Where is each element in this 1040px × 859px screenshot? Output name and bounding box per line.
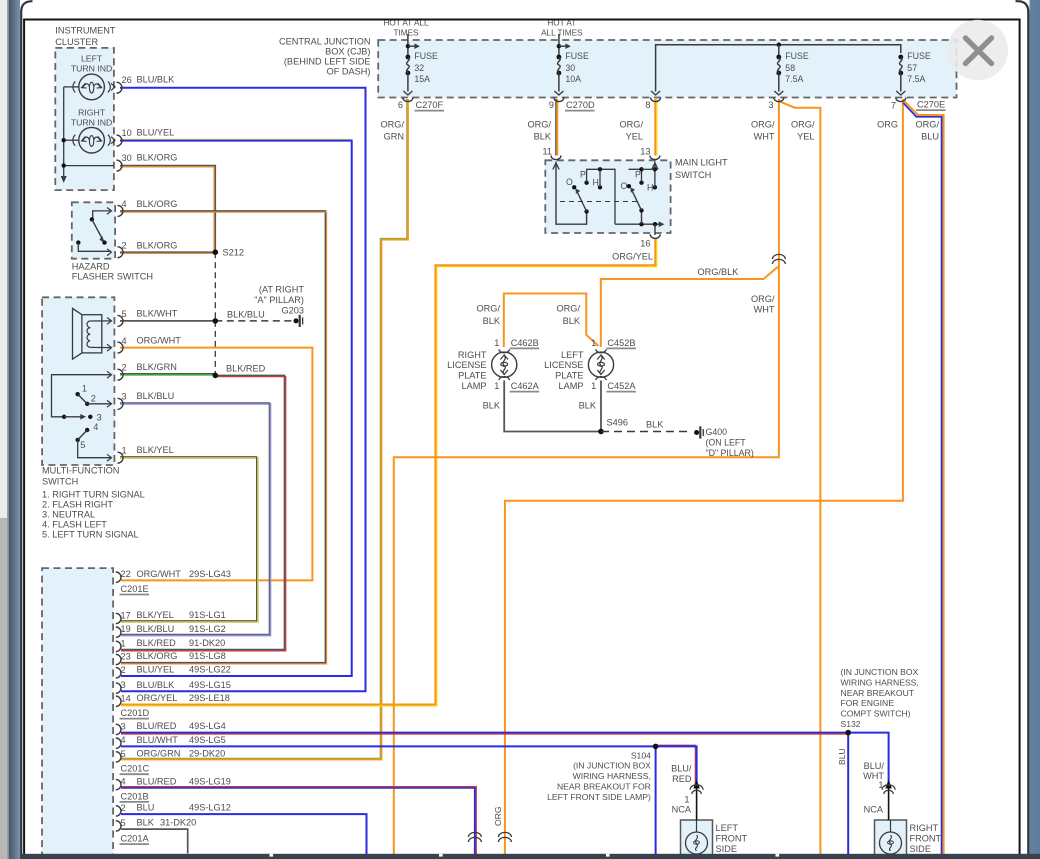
svg-text:29S-LG43: 29S-LG43 [189, 569, 231, 579]
svg-text:31-DK20: 31-DK20 [160, 818, 196, 828]
svg-text:LEFT: LEFT [561, 350, 584, 360]
svg-text:4: 4 [121, 777, 126, 787]
wire BLK C201A pin5 to bottom bus [121, 829, 188, 853]
MFS pin 5 connector [118, 315, 124, 326]
svg-text:BLK: BLK [483, 316, 501, 326]
splice S496 [598, 429, 604, 435]
svg-text:1: 1 [494, 338, 499, 348]
pin 26 connector [117, 82, 122, 93]
svg-text:FRONT: FRONT [910, 834, 942, 844]
svg-text:BLK/YEL: BLK/YEL [137, 445, 174, 455]
svg-text:ALL TIMES: ALL TIMES [541, 28, 583, 37]
hazard pin 2 connector [118, 247, 124, 258]
svg-text:4: 4 [122, 336, 127, 346]
svg-text:5: 5 [121, 749, 126, 759]
C201 pin 19 BLK/BLU [116, 627, 121, 637]
svg-text:29S-LE18: 29S-LE18 [189, 693, 230, 703]
inline connector on ORG/WHT wire [772, 254, 785, 259]
viewer scrollbar thumb (left) [0, 518, 7, 859]
wire BLK/YEL MFS pin1 to C201E pin17 [120, 458, 258, 622]
wire BLK/RED junction to C201E pin1 [121, 375, 285, 649]
svg-text:YEL: YEL [626, 132, 643, 142]
left front lamp NCA connector [696, 784, 698, 820]
svg-text:BLU/YEL: BLU/YEL [137, 665, 175, 675]
MFS pin 2 connector [118, 369, 124, 380]
wire ORG/BLK branch to right license lamp [504, 294, 599, 348]
svg-text:ORG/: ORG/ [791, 120, 815, 130]
ground G203 [294, 318, 299, 323]
svg-text:NCA: NCA [672, 805, 692, 815]
svg-text:ORG/BLK: ORG/BLK [698, 267, 740, 277]
C201 pin 23 BLK/ORG [116, 654, 121, 664]
dashed wire BLK/BLU junction to G203 [215, 320, 293, 322]
MLS interior right switch [615, 223, 659, 225]
wire ORG/GRN fuse32 pin6 to C201C pin5 [121, 99, 407, 758]
svg-text:CLUSTER: CLUSTER [55, 37, 98, 47]
hazard pin 4 connector [118, 205, 124, 216]
connector C201 box [42, 568, 113, 855]
svg-text:3: 3 [121, 680, 126, 690]
svg-text:TURN IND: TURN IND [71, 118, 113, 128]
close button [947, 20, 1008, 81]
svg-text:C201A: C201A [121, 834, 150, 844]
svg-text:"D" PILLAR): "D" PILLAR) [706, 448, 754, 458]
viewer bottom bar [20, 854, 1040, 859]
svg-text:TURN IND: TURN IND [71, 64, 113, 74]
wire BLU/RED S104 to left front side lamp [656, 745, 696, 785]
svg-text:19: 19 [121, 624, 131, 634]
hazard switch interior [93, 211, 111, 220]
svg-text:FUSE: FUSE [414, 51, 438, 61]
lamp LEFT FRONT SIDE LAMP [681, 820, 713, 859]
svg-text:26: 26 [122, 75, 132, 85]
wire ORG/YEL main light switch pin16 to C201D pin14 [121, 238, 657, 707]
svg-text:C462A: C462A [511, 381, 540, 391]
svg-text:BLK/GRN: BLK/GRN [137, 362, 177, 372]
svg-text:FUSE: FUSE [907, 51, 931, 61]
svg-text:49S-LG5: 49S-LG5 [189, 735, 226, 745]
svg-text:NEAR BREAKOUT FOR: NEAR BREAKOUT FOR [557, 781, 651, 791]
svg-text:ORG/WHT: ORG/WHT [137, 569, 182, 579]
svg-text:7.5A: 7.5A [907, 74, 925, 84]
viewer right background band [1030, 0, 1040, 859]
MLS mechanical linkage [560, 201, 641, 203]
viewer divider line [7, 0, 9, 859]
svg-text:49S-LG15: 49S-LG15 [189, 680, 231, 690]
svg-text:BLK: BLK [534, 132, 552, 142]
svg-text:S212: S212 [223, 248, 244, 258]
svg-text:WHT: WHT [754, 132, 775, 142]
wire ORG CJB pin7 to bottom break [505, 99, 903, 859]
C201 pin 22 ORG/WHT [116, 572, 121, 582]
svg-text:49S-LG4: 49S-LG4 [189, 721, 226, 731]
C201 pin 3 BLU/BLK [116, 683, 121, 693]
lamp LEFT TURN IND [79, 74, 105, 100]
lamp LEFT LICENSE PLATE LAMP [588, 352, 613, 377]
lamp RIGHT FRONT SIDE LAMP [875, 820, 907, 859]
svg-text:1: 1 [494, 381, 499, 391]
svg-text:BLK: BLK [579, 401, 597, 411]
svg-text:ORG: ORG [493, 806, 503, 826]
node on cluster ground at right lamp [62, 138, 66, 142]
svg-text:BLK/BLU: BLK/BLU [137, 624, 175, 634]
svg-text:WIRING HARNESS,: WIRING HARNESS, [573, 771, 651, 781]
CJB pin 7 connector C270E [896, 98, 906, 102]
svg-text:11: 11 [542, 147, 552, 157]
svg-text:1: 1 [591, 338, 596, 348]
svg-text:C270E: C270E [917, 100, 945, 110]
svg-text:P: P [580, 170, 586, 180]
svg-text:3. NEUTRAL: 3. NEUTRAL [42, 510, 95, 520]
svg-text:(IN JUNCTION BOX: (IN JUNCTION BOX [841, 667, 919, 677]
svg-text:C270F: C270F [416, 100, 444, 110]
wire BLU/WHT S132 to right front side lamp [848, 733, 888, 786]
svg-text:7.5A: 7.5A [785, 74, 803, 84]
svg-text:30: 30 [565, 63, 575, 73]
svg-text:91S-LG1: 91S-LG1 [189, 610, 226, 620]
svg-text:BLK/BLU: BLK/BLU [227, 309, 265, 319]
svg-text:BLU/: BLU/ [864, 761, 885, 771]
svg-text:BLK/ORG: BLK/ORG [137, 241, 178, 251]
svg-text:4. FLASH LEFT: 4. FLASH LEFT [42, 520, 107, 530]
wire BLU S104 down to bottom [655, 746, 657, 859]
wire BLU/RED C201B pin4 to bottom break [121, 788, 475, 859]
svg-text:3: 3 [121, 721, 126, 731]
svg-text:LEFT: LEFT [81, 54, 103, 64]
wire BLU S132 down to bottom [847, 733, 849, 859]
svg-text:1: 1 [122, 446, 127, 456]
svg-text:2: 2 [91, 394, 96, 404]
svg-text:SWITCH: SWITCH [42, 477, 78, 487]
diagram frame [23, 20, 25, 855]
svg-text:G400: G400 [706, 427, 728, 437]
svg-text:BLU: BLU [137, 803, 155, 813]
svg-text:FUSE: FUSE [785, 51, 809, 61]
svg-text:15A: 15A [414, 74, 430, 84]
MFS pin 4 connector [118, 342, 124, 353]
svg-text:1: 1 [878, 780, 883, 790]
fuse 58 7.5A [776, 55, 781, 60]
wire BLK/ORG hazard pin4 to C201E pin23 [120, 211, 325, 663]
svg-text:5: 5 [80, 440, 85, 450]
svg-text:17: 17 [121, 611, 131, 621]
svg-text:S496: S496 [607, 418, 628, 428]
wire ORG/BLU CJB pin7 to bottom right [903, 103, 941, 859]
C201 pin 1 BLK/RED [116, 641, 121, 651]
svg-text:57: 57 [907, 63, 917, 73]
wire BLK/BLU MFS pin3 to C201E pin19 [120, 404, 270, 636]
svg-text:BLK/YEL: BLK/YEL [137, 610, 174, 620]
C201 pin 4 BLU/WHT [116, 738, 121, 748]
svg-text:BLK/WHT: BLK/WHT [137, 309, 178, 319]
svg-text:C270D: C270D [566, 100, 595, 110]
svg-text:P: P [635, 170, 641, 180]
svg-text:ORG/: ORG/ [620, 120, 644, 130]
MLS pin 11 connector [551, 156, 561, 160]
svg-text:2: 2 [121, 803, 126, 813]
svg-text:1: 1 [684, 795, 689, 805]
splice S132 [845, 730, 851, 736]
svg-text:10: 10 [122, 128, 132, 138]
svg-text:ORG/: ORG/ [751, 294, 775, 304]
svg-text:WHT: WHT [754, 305, 775, 315]
svg-text:2: 2 [122, 241, 127, 251]
svg-text:BLK/ORG: BLK/ORG [137, 651, 178, 661]
MFS pin 1 connector [118, 452, 124, 463]
svg-text:ORG/YEL: ORG/YEL [137, 693, 178, 703]
wire ORG/BLK tap to license plate lamps [601, 266, 779, 347]
wire BLK/WHT MFS pin5 to junction [120, 320, 215, 322]
svg-text:BLU/RED: BLU/RED [137, 721, 177, 731]
svg-text:5: 5 [121, 818, 126, 828]
CJB pin 8 connector [651, 98, 661, 102]
svg-text:BLU/WHT: BLU/WHT [137, 735, 179, 745]
svg-text:C201B: C201B [121, 791, 149, 801]
CJB pin 6 connector C270F [403, 98, 413, 102]
fuse 32 15A [407, 34, 409, 57]
central junction box (CJB) [378, 40, 956, 98]
svg-text:49S-LG19: 49S-LG19 [189, 776, 231, 786]
svg-text:C201E: C201E [121, 584, 149, 594]
svg-text:BLK/RED: BLK/RED [137, 638, 177, 648]
C201 pin 3 BLU/RED [116, 724, 121, 734]
C201 pin 5 BLK [116, 821, 121, 831]
svg-text:G203: G203 [282, 306, 304, 316]
junction node at BLK/GRN row [213, 373, 219, 379]
wire BLK right lamp to S496 [504, 381, 601, 432]
inline connector on BLU/RED wire [468, 832, 481, 837]
wire BLU C201B pin2 to bottom [121, 814, 367, 859]
svg-text:2: 2 [122, 363, 127, 373]
splice S212 [213, 249, 219, 255]
wire ORG/BLK fuse30 pin9 to main light switch pin11 [555, 99, 557, 156]
svg-text:BLK/BLU: BLK/BLU [137, 391, 175, 401]
svg-text:23: 23 [121, 652, 131, 662]
svg-text:BLK: BLK [563, 316, 581, 326]
svg-text:(ON LEFT: (ON LEFT [706, 438, 747, 448]
svg-text:BLU: BLU [921, 132, 939, 142]
svg-text:49S-LG22: 49S-LG22 [189, 665, 231, 675]
svg-text:WIRING HARNESS,: WIRING HARNESS, [841, 677, 919, 687]
wire BLU/BLK pin26 to C201D pin3 [120, 88, 366, 692]
svg-text:BLU/YEL: BLU/YEL [137, 128, 175, 138]
svg-text:FUSE: FUSE [565, 51, 589, 61]
wire ORG/WHT CJB pin3 down-left-down to bottom [394, 99, 779, 859]
svg-text:LEFT FRONT SIDE LAMP): LEFT FRONT SIDE LAMP) [547, 792, 651, 802]
svg-text:LEFT: LEFT [716, 823, 739, 833]
svg-text:BLK/ORG: BLK/ORG [137, 199, 178, 209]
dashed wire BLK/RED segment down [214, 321, 216, 376]
svg-text:7: 7 [891, 101, 896, 111]
instrument cluster box [55, 48, 114, 190]
svg-text:ORG/GRN: ORG/GRN [137, 749, 181, 759]
svg-text:S132: S132 [841, 719, 861, 729]
svg-text:SWITCH: SWITCH [675, 170, 711, 180]
wire ORG/WHT MFS pin4 to C201E pin22 [120, 348, 312, 581]
svg-text:MAIN LIGHT: MAIN LIGHT [675, 158, 728, 168]
svg-text:5. LEFT TURN SIGNAL: 5. LEFT TURN SIGNAL [42, 530, 139, 540]
pin 10 connector [117, 135, 123, 146]
svg-text:RIGHT: RIGHT [78, 108, 106, 118]
svg-text:BOX (CJB): BOX (CJB) [325, 47, 370, 57]
svg-text:GRN: GRN [384, 132, 404, 142]
CJB internal bus to fuses 58/57 [656, 45, 901, 92]
svg-text:14: 14 [121, 693, 131, 703]
svg-text:C462B: C462B [511, 338, 539, 348]
svg-text:HAZARD: HAZARD [72, 262, 110, 272]
svg-text:1. RIGHT TURN SIGNAL: 1. RIGHT TURN SIGNAL [42, 490, 145, 500]
instrument cluster internal ground wire [63, 87, 65, 180]
svg-text:3: 3 [768, 100, 773, 110]
svg-text:O: O [566, 177, 573, 187]
svg-text:H: H [593, 178, 599, 188]
svg-text:BLK/ORG: BLK/ORG [137, 153, 178, 163]
svg-text:(BEHIND LEFT SIDE: (BEHIND LEFT SIDE [284, 57, 371, 67]
dashed wire S212 to G203 node [214, 252, 216, 321]
svg-text:ORG/: ORG/ [751, 120, 775, 130]
svg-text:LICENSE: LICENSE [447, 360, 486, 370]
svg-text:RIGHT: RIGHT [910, 823, 939, 833]
svg-text:BLU/: BLU/ [671, 764, 692, 774]
svg-text:H: H [647, 183, 653, 193]
svg-text:C452A: C452A [607, 381, 636, 391]
C201 pin 17 BLK/YEL [116, 613, 121, 623]
node on cluster ground at pin30 row [62, 163, 66, 167]
C201 pin 2 BLU [116, 806, 121, 816]
svg-text:BLU/BLK: BLU/BLK [137, 680, 176, 690]
fuse 57 7.5A [898, 55, 903, 60]
wire BLU/RED C201D pin3 to S132 [121, 732, 848, 734]
inline connector on ORG wire [498, 832, 511, 837]
fuse 30 10A [558, 34, 560, 57]
wire BLK/ORG hazard pin2 to S212 [120, 251, 215, 253]
svg-text:29-DK20: 29-DK20 [189, 749, 225, 759]
wire ORG/YEL CJB pin3 jog to bottom [780, 102, 821, 859]
svg-text:58: 58 [785, 63, 795, 73]
svg-text:FLASHER SWITCH: FLASHER SWITCH [72, 272, 153, 282]
svg-text:LAMP: LAMP [558, 381, 583, 391]
svg-text:(IN JUNCTION BOX: (IN JUNCTION BOX [573, 761, 651, 771]
svg-text:OF DASH): OF DASH) [327, 67, 371, 77]
svg-text:"A" PILLAR): "A" PILLAR) [254, 295, 304, 305]
svg-text:32: 32 [414, 63, 424, 73]
svg-text:CENTRAL JUNCTION: CENTRAL JUNCTION [279, 37, 371, 47]
C201 pin 4 BLU/RED [116, 779, 121, 789]
svg-text:1: 1 [121, 638, 126, 648]
svg-text:30: 30 [122, 153, 132, 163]
svg-text:16: 16 [640, 239, 650, 249]
svg-text:ORG/: ORG/ [916, 120, 940, 130]
svg-text:ORG: ORG [877, 120, 898, 130]
svg-text:BLK: BLK [483, 401, 501, 411]
svg-text:S104: S104 [631, 750, 651, 760]
svg-text:91S-LG8: 91S-LG8 [189, 651, 226, 661]
svg-text:1: 1 [591, 381, 596, 391]
MFS flasher symbol [82, 315, 102, 353]
MFS switch interior [52, 375, 112, 417]
svg-text:1: 1 [82, 384, 87, 394]
svg-text:YEL: YEL [797, 132, 814, 142]
svg-text:C452B: C452B [607, 338, 635, 348]
wire BLU/YEL pin10 to C201D pin2 [120, 138, 352, 140]
svg-text:BLK: BLK [646, 420, 664, 430]
svg-text:2: 2 [121, 665, 126, 675]
lamp RIGHT LICENSE PLATE LAMP [492, 352, 517, 377]
svg-text:MULTI-FUNCTION: MULTI-FUNCTION [42, 466, 119, 476]
svg-text:91S-LG2: 91S-LG2 [189, 624, 226, 634]
MFS pin 3 connector [118, 398, 124, 409]
svg-text:O: O [621, 181, 628, 191]
multi-function switch box [42, 297, 114, 465]
wire BLK left lamp to S496 [600, 381, 602, 432]
svg-text:22: 22 [121, 569, 131, 579]
dashed wire BLK S496 to G400 [601, 431, 692, 433]
svg-text:INSTRUMENT: INSTRUMENT [55, 26, 116, 36]
svg-text:10A: 10A [565, 74, 581, 84]
right front lamp NCA connector [888, 784, 890, 820]
MLS interior left switch [553, 163, 559, 170]
svg-text:5: 5 [122, 309, 127, 319]
svg-text:13: 13 [640, 147, 650, 157]
svg-text:3: 3 [122, 392, 127, 402]
wire BLK/GRN MFS pin2 to junction [120, 374, 215, 376]
svg-text:FRONT: FRONT [716, 834, 748, 844]
CJB pin 9 connector C270D [554, 98, 564, 102]
svg-text:ORG/: ORG/ [557, 304, 581, 314]
pin 30 connector [117, 160, 123, 171]
C201 pin 2 BLU/YEL [116, 668, 121, 678]
hazard flasher switch box [72, 202, 115, 258]
splice S104 [653, 744, 659, 750]
svg-text:BLK/RED: BLK/RED [226, 364, 266, 374]
svg-text:8: 8 [645, 100, 650, 110]
C201 pin 5 ORG/GRN [116, 752, 121, 762]
main light switch box [545, 160, 670, 233]
svg-text:49S-LG12: 49S-LG12 [189, 803, 231, 813]
C201 pin 14 ORG/YEL [116, 696, 121, 706]
svg-text:NCA: NCA [864, 805, 884, 815]
svg-text:ORG/: ORG/ [528, 120, 552, 130]
svg-text:RED: RED [672, 774, 692, 784]
wire ORG/YEL CJB pin8 to main light switch pin13 [656, 99, 658, 156]
MLS pin 13 connector [650, 156, 660, 160]
svg-text:BLK: BLK [137, 818, 155, 828]
svg-text:FOR ENGINE: FOR ENGINE [841, 698, 895, 708]
svg-text:(AT RIGHT: (AT RIGHT [259, 285, 304, 295]
svg-text:RIGHT: RIGHT [458, 350, 487, 360]
viewer scrollbar track (left) [0, 0, 7, 859]
svg-text:6: 6 [398, 100, 403, 110]
svg-text:ORG/: ORG/ [477, 304, 501, 314]
svg-text:9: 9 [549, 100, 554, 110]
svg-text:ORG/WHT: ORG/WHT [137, 336, 182, 346]
svg-text:LICENSE: LICENSE [544, 360, 583, 370]
svg-text:BLU/BLK: BLU/BLK [137, 75, 176, 85]
svg-text:C201D: C201D [121, 708, 150, 718]
svg-text:NEAR BREAKOUT: NEAR BREAKOUT [841, 688, 915, 698]
svg-text:3: 3 [97, 412, 102, 422]
svg-text:4: 4 [121, 735, 126, 745]
svg-text:COMPT SWITCH): COMPT SWITCH) [841, 709, 911, 719]
junction node at BLK/WHT row [213, 318, 219, 324]
svg-text:C201C: C201C [121, 764, 150, 774]
svg-text:BLU/RED: BLU/RED [137, 776, 177, 786]
svg-text:PLATE: PLATE [555, 370, 583, 380]
svg-text:LAMP: LAMP [461, 381, 486, 391]
svg-text:91-DK20: 91-DK20 [189, 638, 225, 648]
svg-text:BLU: BLU [837, 748, 847, 765]
svg-text:PLATE: PLATE [458, 370, 486, 380]
